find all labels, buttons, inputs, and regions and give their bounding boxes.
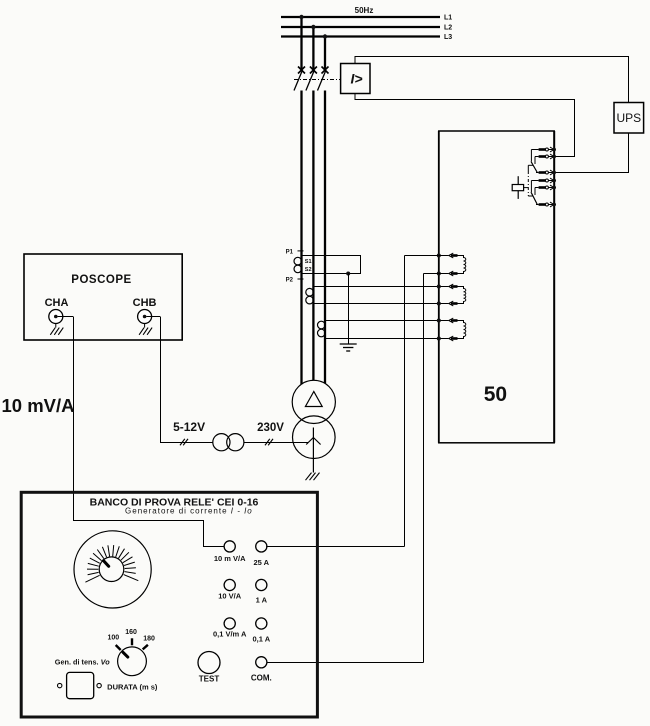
svg-text:100: 100 — [107, 635, 119, 642]
svg-text:0,1 V/m A: 0,1 V/m A — [213, 630, 247, 639]
svg-text:160: 160 — [125, 629, 137, 636]
svg-text:POSCOPE: POSCOPE — [71, 274, 131, 286]
svg-text:L1: L1 — [444, 15, 452, 22]
svg-text:50Hz: 50Hz — [355, 6, 374, 15]
svg-text:CHB: CHB — [133, 297, 157, 309]
svg-text:TEST: TEST — [199, 675, 220, 684]
svg-text:10 V/A: 10 V/A — [218, 592, 242, 601]
svg-text:DURATA (m s): DURATA (m s) — [107, 682, 158, 691]
svg-text:25 A: 25 A — [254, 558, 270, 567]
svg-text:S2: S2 — [305, 267, 312, 273]
svg-text:Generatore di corrente I - Io: Generatore di corrente I - Io — [125, 507, 253, 516]
svg-text:10 m V/A: 10 m V/A — [214, 554, 246, 563]
svg-text:5-12V: 5-12V — [173, 420, 205, 434]
svg-text:I>: I> — [350, 71, 362, 87]
svg-text:CHA: CHA — [45, 297, 69, 309]
svg-text:180: 180 — [143, 636, 155, 643]
svg-text:1 A: 1 A — [256, 596, 268, 605]
svg-text:0,1 A: 0,1 A — [252, 635, 270, 644]
svg-text:Gen. di tens. Vo: Gen. di tens. Vo — [55, 658, 110, 667]
svg-text:S1: S1 — [305, 259, 312, 265]
svg-text:P2: P2 — [286, 278, 294, 284]
svg-text:P1: P1 — [286, 249, 294, 255]
svg-text:COM.: COM. — [251, 674, 272, 683]
svg-text:10 mV/A: 10 mV/A — [2, 395, 75, 416]
svg-text:UPS: UPS — [616, 111, 641, 125]
svg-text:L2: L2 — [444, 25, 452, 32]
svg-text:L3: L3 — [444, 34, 452, 41]
svg-text:230V: 230V — [257, 422, 284, 434]
svg-text:50: 50 — [484, 383, 507, 406]
